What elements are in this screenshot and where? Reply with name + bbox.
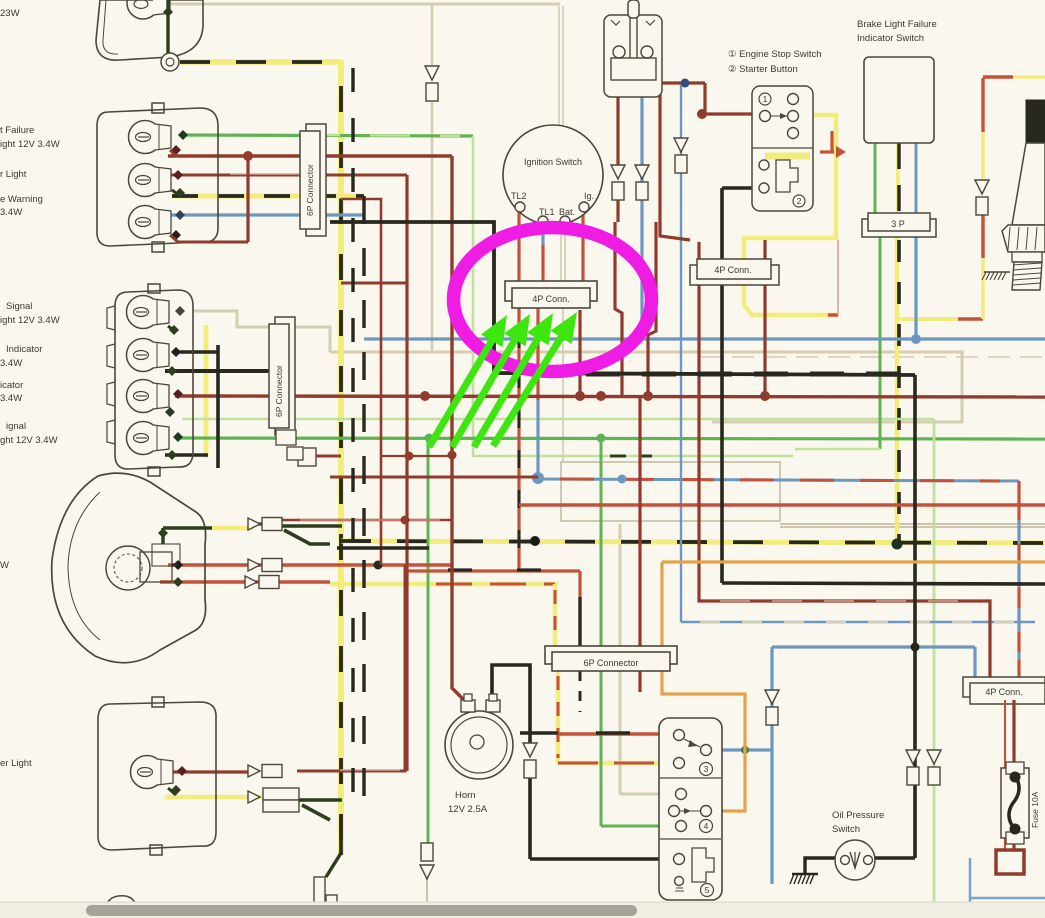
wire tan main bus [330, 352, 962, 422]
bulb signal L [127, 296, 160, 329]
junction dark red bus [760, 391, 770, 401]
square connector a [276, 430, 296, 445]
wire dark red into 6P [638, 397, 641, 647]
terminal [158, 528, 168, 538]
junction green 2 [597, 434, 606, 443]
wire black short row [337, 546, 429, 549]
bullet connector [248, 559, 260, 571]
wire blue loop left [770, 647, 773, 884]
wire yellow spark plug top [981, 132, 985, 182]
wire black seg over red [596, 731, 630, 734]
junction dark red v [401, 516, 410, 525]
wire dark green tail bulb [166, 0, 169, 56]
circled 1 in box [759, 93, 771, 105]
wire red headlight row [168, 563, 452, 566]
wire yellow loop lower [744, 305, 838, 315]
wire tan drop to connector [431, 4, 434, 68]
bullet connector yellow-green [248, 791, 260, 803]
wire stub [170, 150, 176, 156]
stub3 [168, 788, 176, 795]
terminal k2 [173, 560, 183, 570]
wire black seg 2 [517, 568, 541, 571]
wire tan dash over blue [700, 621, 1020, 623]
brake switch base [611, 58, 656, 80]
4P tr inner [697, 259, 771, 279]
plunger stem l [629, 18, 631, 58]
wire green from 3P [879, 236, 882, 449]
junction dark red v3 [448, 451, 457, 460]
wire yellow spark-plug link [897, 317, 958, 321]
terminal dk [171, 230, 181, 240]
headlight socket [140, 552, 172, 582]
svg-text:6P Connector: 6P Connector [274, 365, 284, 417]
annotation arrow 1 [429, 336, 495, 447]
horn post R [489, 694, 497, 701]
annotation arrow 2 [452, 335, 518, 447]
wire black to switch bottom [530, 857, 679, 861]
wire black bulb link [175, 350, 218, 354]
wire blue brake switch [640, 97, 643, 339]
horn post L [464, 694, 472, 701]
terminal [175, 188, 185, 198]
wire black dash over red [518, 330, 521, 560]
wire red corner down [578, 571, 581, 597]
scrollbar thumb [86, 905, 637, 916]
wire blue main bus [364, 337, 1045, 340]
wire blue bulb3 [170, 213, 364, 216]
wire orange bus [662, 560, 1045, 563]
hex line [1008, 227, 1010, 250]
scrollbar track [0, 902, 1045, 918]
svg-text:② Starter Button: ② Starter Button [728, 64, 798, 75]
wire thin to ignition Bat 2 [562, 6, 564, 128]
plug cap [1026, 100, 1045, 143]
brake switch body [604, 15, 662, 97]
svg-text:e Warning: e Warning [0, 194, 43, 205]
wire tan below 6P connector [619, 671, 622, 794]
wire red segment spark plug [981, 215, 984, 258]
hex line [1035, 227, 1037, 250]
wire black dashed vertical 2 [362, 196, 365, 810]
wire dark red thin vertical [341, 199, 381, 565]
wire light green bus [182, 418, 934, 421]
wire tan below connector [426, 878, 428, 918]
wire red stub v [830, 131, 833, 152]
svg-text:Bat.: Bat. [559, 207, 575, 217]
wire black dash 3P [897, 240, 901, 545]
wire dark red bottom box [160, 770, 248, 773]
svg-text:4: 4 [704, 821, 709, 831]
junction blue 2 [618, 475, 627, 484]
svg-text:4P Conn.: 4P Conn. [532, 294, 569, 304]
blade3 [680, 810, 700, 812]
wire green brake indicator [874, 143, 877, 213]
wire light green horizontal [473, 455, 793, 458]
6P bottom outer [545, 646, 677, 664]
bulb indicator 2 [127, 380, 160, 413]
wire yellow to 6P [330, 582, 558, 587]
wire pink center line [230, 173, 300, 175]
junction dark red bus [420, 391, 430, 401]
square connector b [287, 447, 303, 460]
wire green main bus [178, 438, 1045, 439]
wire blue switch to loop [712, 748, 772, 751]
wire yellow brake indicator [896, 143, 900, 236]
wire black oil ground [805, 858, 836, 874]
svg-text:W: W [0, 560, 9, 571]
wire red stub [820, 150, 834, 153]
headlight bulb [106, 546, 150, 590]
headlight shell [52, 473, 206, 663]
4P br outer [963, 677, 1045, 697]
wire dark red thin row [282, 519, 452, 521]
junction dark red bus [596, 391, 606, 401]
ignition switch [503, 125, 603, 225]
bulb indicator 1 [127, 339, 160, 372]
wire yellow loop engine stop [744, 115, 836, 305]
connector spark plug [975, 180, 989, 194]
terminal g5 [173, 577, 183, 587]
wire dark green conn [254, 522, 282, 525]
divider1 [660, 777, 721, 779]
svg-text:Oil Pressure: Oil Pressure [832, 810, 884, 821]
wire dark red corner up [388, 565, 405, 771]
wire pink dash over dark red [720, 600, 970, 602]
svg-text:TL2: TL2 [511, 191, 527, 201]
svg-text:3.4W: 3.4W [0, 393, 22, 404]
wire stub2 [172, 190, 180, 196]
wire yellow to switch [558, 761, 679, 766]
headlight socket2 [152, 544, 180, 566]
wire red over yellow to switch [558, 762, 679, 765]
wire dark red small conn [316, 455, 341, 458]
wire thin tan [350, 476, 538, 478]
partial component bottom [104, 896, 140, 918]
wire red down to 4P [1017, 481, 1020, 677]
wire thin tan Bat down [562, 308, 564, 462]
svg-text:Signal: Signal [6, 301, 32, 312]
terminal g2 [167, 366, 177, 376]
connector black long [906, 750, 920, 764]
wire black lower bus [722, 583, 1045, 584]
svg-text:ight 12V 3.4W: ight 12V 3.4W [0, 315, 60, 326]
svg-text:3: 3 [704, 764, 709, 774]
horn [445, 711, 513, 779]
bullet connector [248, 518, 260, 530]
connector blue bottom [765, 690, 779, 704]
fuse cap top [1006, 762, 1024, 774]
engine stop outer [752, 86, 813, 211]
svg-text:Ignition Switch: Ignition Switch [524, 157, 582, 167]
wire dark red bulb2 [170, 174, 407, 177]
bulb warning [129, 206, 162, 239]
wire pink over [300, 519, 440, 521]
wire yellow bottom box [165, 795, 262, 800]
6P bottom inner [552, 652, 670, 671]
junction dark on blue [911, 643, 920, 652]
wire black horn up-over [492, 665, 530, 745]
circled 2 in box [793, 195, 805, 207]
wire dark red to engine stop [705, 83, 763, 114]
wire green to bottom switch [600, 438, 603, 826]
wire dark red below fuse [1012, 838, 1015, 850]
wire dark red Ig to bus [578, 310, 581, 395]
turn signal box 2 [115, 290, 193, 469]
svg-text:3 P: 3 P [891, 219, 905, 229]
thread line [1013, 273, 1041, 275]
wire red TL1 [541, 245, 544, 282]
svg-text:Indicator Switch: Indicator Switch [857, 33, 924, 44]
4P inner [512, 288, 590, 308]
junction blue [911, 334, 921, 344]
wire black dash vertical [339, 86, 343, 855]
ground hatch spark plug [984, 271, 1010, 273]
junction black on red [374, 561, 383, 570]
wire red over yellow [436, 583, 555, 586]
wire dark green bulb right [163, 526, 212, 530]
wire thin tan right 1 [780, 523, 1045, 525]
wire blue brake indicator [915, 143, 918, 236]
fuse dot bottom [1010, 824, 1021, 835]
wire blue TL1 stub [541, 228, 544, 245]
box2 tab top [148, 284, 160, 293]
wire black dash emphasis [530, 372, 900, 377]
wire yellow box2 vertical [204, 325, 209, 458]
bullet connector [245, 576, 257, 588]
wire dark red to teardrop [330, 476, 538, 479]
terminal blue [175, 210, 185, 220]
svg-text:ignal: ignal [6, 421, 26, 432]
wire black end seg [339, 840, 343, 855]
wire dark red below engine stop [763, 240, 766, 397]
wire blue 3P to bus [914, 236, 917, 339]
wire dark red brake switch lower [616, 200, 619, 222]
wire light green vertical [472, 136, 475, 457]
terminal r2 [177, 766, 187, 776]
svg-text:12V 2.5A: 12V 2.5A [448, 804, 488, 815]
svg-text:Fuse 10A: Fuse 10A [1030, 791, 1040, 828]
wire dark red down from link [660, 83, 690, 240]
junction blue teardrop [532, 472, 544, 484]
wire light green 3P branch [795, 448, 880, 451]
svg-text:4P Conn.: 4P Conn. [714, 265, 751, 275]
annotation arrow 4 [493, 332, 564, 446]
tail light housing [96, 0, 203, 60]
wire thin to ignition Bat [558, 6, 560, 128]
junction dark red v2 [405, 452, 414, 461]
box1 tab top [152, 103, 164, 113]
terminal tan [175, 306, 185, 316]
wire red below 4P conn [517, 308, 520, 571]
wire yellow spark plug lower [981, 215, 985, 319]
wire dark red after bullet [297, 770, 388, 773]
wire dark red bulb1 [168, 154, 452, 157]
terminal [173, 170, 183, 180]
wire black long vertical right [913, 375, 917, 858]
wire black seg 1 [448, 568, 472, 571]
wire yellow headlight [212, 526, 254, 531]
wire red Ig [581, 212, 584, 282]
wire dark red to 4P bottom [699, 242, 990, 677]
junction black yellow bus 2 [530, 536, 540, 546]
svg-text:Ig.: Ig. [584, 191, 594, 201]
connector green bottom [421, 843, 433, 861]
wire thin tan right 2 [780, 526, 1045, 528]
wire black brake indicator [897, 143, 900, 236]
box3 tab top [152, 697, 164, 707]
plug body [1012, 252, 1042, 262]
wire black horn down [528, 778, 532, 859]
svg-text:Indicator: Indicator [6, 344, 42, 355]
terminal k [171, 347, 181, 357]
wire dark red vertical link [246, 156, 249, 242]
node [826, 238, 838, 315]
fuse cap bottom [1006, 832, 1024, 844]
svg-text:6P Connector: 6P Connector [305, 164, 315, 216]
wire blue box bottom edge [970, 897, 1045, 900]
partial circle below oil switch [837, 904, 871, 918]
thread line [1013, 278, 1041, 280]
dark red component fragment [996, 850, 1024, 874]
6P conn2 inner [269, 324, 289, 428]
wire yellow main vertical [338, 60, 344, 855]
svg-text:23W: 23W [0, 8, 20, 19]
wire dark red long vertical to horn [452, 156, 467, 713]
wire red thin below 4P [1004, 700, 1006, 850]
wire black thick row [165, 369, 280, 373]
fuse outer [1001, 768, 1029, 838]
wire blue dashed lower bus [681, 621, 1035, 624]
connector dark red brake [611, 165, 625, 179]
wire light green over [300, 135, 460, 136]
wire red dash over blue bus [560, 479, 1000, 481]
bulb signal R [127, 422, 160, 455]
terminal g4 [167, 450, 177, 460]
wire blue dashed bus [538, 479, 1019, 481]
wire yellow main bus [341, 541, 1045, 543]
junction dark red engine stop [697, 109, 707, 119]
wire tan connector to bus [431, 100, 434, 352]
svg-text:3.4W: 3.4W [0, 358, 22, 369]
switch box [659, 718, 722, 900]
terminal r [173, 389, 183, 399]
hex line [1026, 227, 1028, 250]
wire black dash over yellow tail [180, 60, 341, 64]
wire dark red long vertical 2 [405, 175, 408, 771]
wire black dash bulb2 [172, 194, 364, 198]
bulb failure light [129, 121, 162, 154]
3P inner [868, 213, 930, 231]
svg-text:r Light: r Light [0, 169, 27, 180]
wire red row to 6P [407, 569, 580, 572]
wire dark red link [341, 282, 407, 285]
ground hatch oil [792, 873, 818, 876]
wire dark red 2 from top [648, 222, 656, 393]
wire black engine stop [722, 186, 763, 190]
wire blue box left edge [969, 858, 972, 918]
yellow band in box [765, 153, 810, 160]
wire blue dash over red [1018, 520, 1021, 660]
terminal [163, 7, 173, 17]
wire red dash below 6P [557, 676, 560, 758]
wire red spark-plug link [958, 317, 983, 320]
divider [752, 147, 813, 149]
6P conn2 outer [275, 317, 295, 435]
wire black engine stop down [720, 188, 724, 583]
bulb r light [129, 164, 162, 197]
4P outer [505, 281, 597, 301]
wire green vertical to connector [427, 438, 430, 843]
bulb bottom [131, 756, 164, 789]
connector pale blue [674, 138, 688, 152]
wire tan into 6P connector [619, 524, 622, 647]
wire tan top tail-light [160, 3, 560, 6]
wire dark green branch [284, 530, 330, 544]
junction black yellow bus [892, 539, 903, 550]
wire black bulb4 row [165, 453, 208, 457]
box1 tab bottom [152, 242, 164, 252]
terminal g [169, 325, 179, 335]
wire black below 6P [579, 671, 582, 712]
svg-text:1: 1 [763, 94, 768, 104]
wire dark red thin row 456 [381, 455, 452, 457]
wire red seg loop [828, 313, 838, 316]
connector blue brake [635, 165, 649, 179]
wire thin tan loop (Bat) [561, 462, 780, 521]
wire yellow bulb2 [172, 194, 364, 199]
terminal green [178, 130, 188, 140]
wire dark green to H conn [326, 853, 341, 877]
wire dark red from brake switch [615, 222, 622, 395]
small connector box [298, 448, 316, 466]
blade2 [684, 739, 700, 747]
turn signal box 1 [97, 108, 218, 246]
svg-text:① Engine Stop Switch: ① Engine Stop Switch [728, 49, 822, 60]
wire dark red main bus [175, 396, 1045, 397]
wire red top right [983, 75, 1013, 78]
junction dark red [243, 151, 253, 161]
junction blue on dark red [681, 79, 690, 88]
junction dark red bus [575, 391, 585, 401]
tail light bulb [127, 0, 159, 19]
wire red main bus [519, 503, 1045, 506]
annotation arrow 3 [474, 334, 541, 447]
hex line [1017, 227, 1019, 250]
svg-text:t Failure: t Failure [0, 125, 34, 136]
wire pink over 2 [340, 769, 400, 771]
wire yellow top right [1013, 75, 1045, 79]
svg-text:icator: icator [0, 380, 23, 391]
wire pale blue long vertical [680, 85, 682, 622]
bullet connector bottom box [248, 765, 260, 777]
terminal [165, 407, 175, 417]
svg-text:ight 12V 3.4W: ight 12V 3.4W [0, 139, 60, 150]
blfis box [864, 57, 934, 143]
svg-text:ght 12V 3.4W: ght 12V 3.4W [0, 435, 58, 446]
wire red to switch terminal [558, 732, 679, 735]
wire red TL2 [517, 212, 520, 282]
wire black dash main bus [341, 541, 1045, 543]
v line [854, 852, 856, 868]
connector pale green [927, 750, 941, 764]
box2 tab bottom [148, 467, 160, 476]
wire dark red brake switch [616, 97, 619, 168]
wire dark red top link [660, 81, 705, 84]
connector tan [425, 66, 439, 80]
wire dark red to fuse [1012, 700, 1015, 768]
wire black big L [330, 222, 915, 375]
svg-text:Horn: Horn [455, 790, 476, 801]
